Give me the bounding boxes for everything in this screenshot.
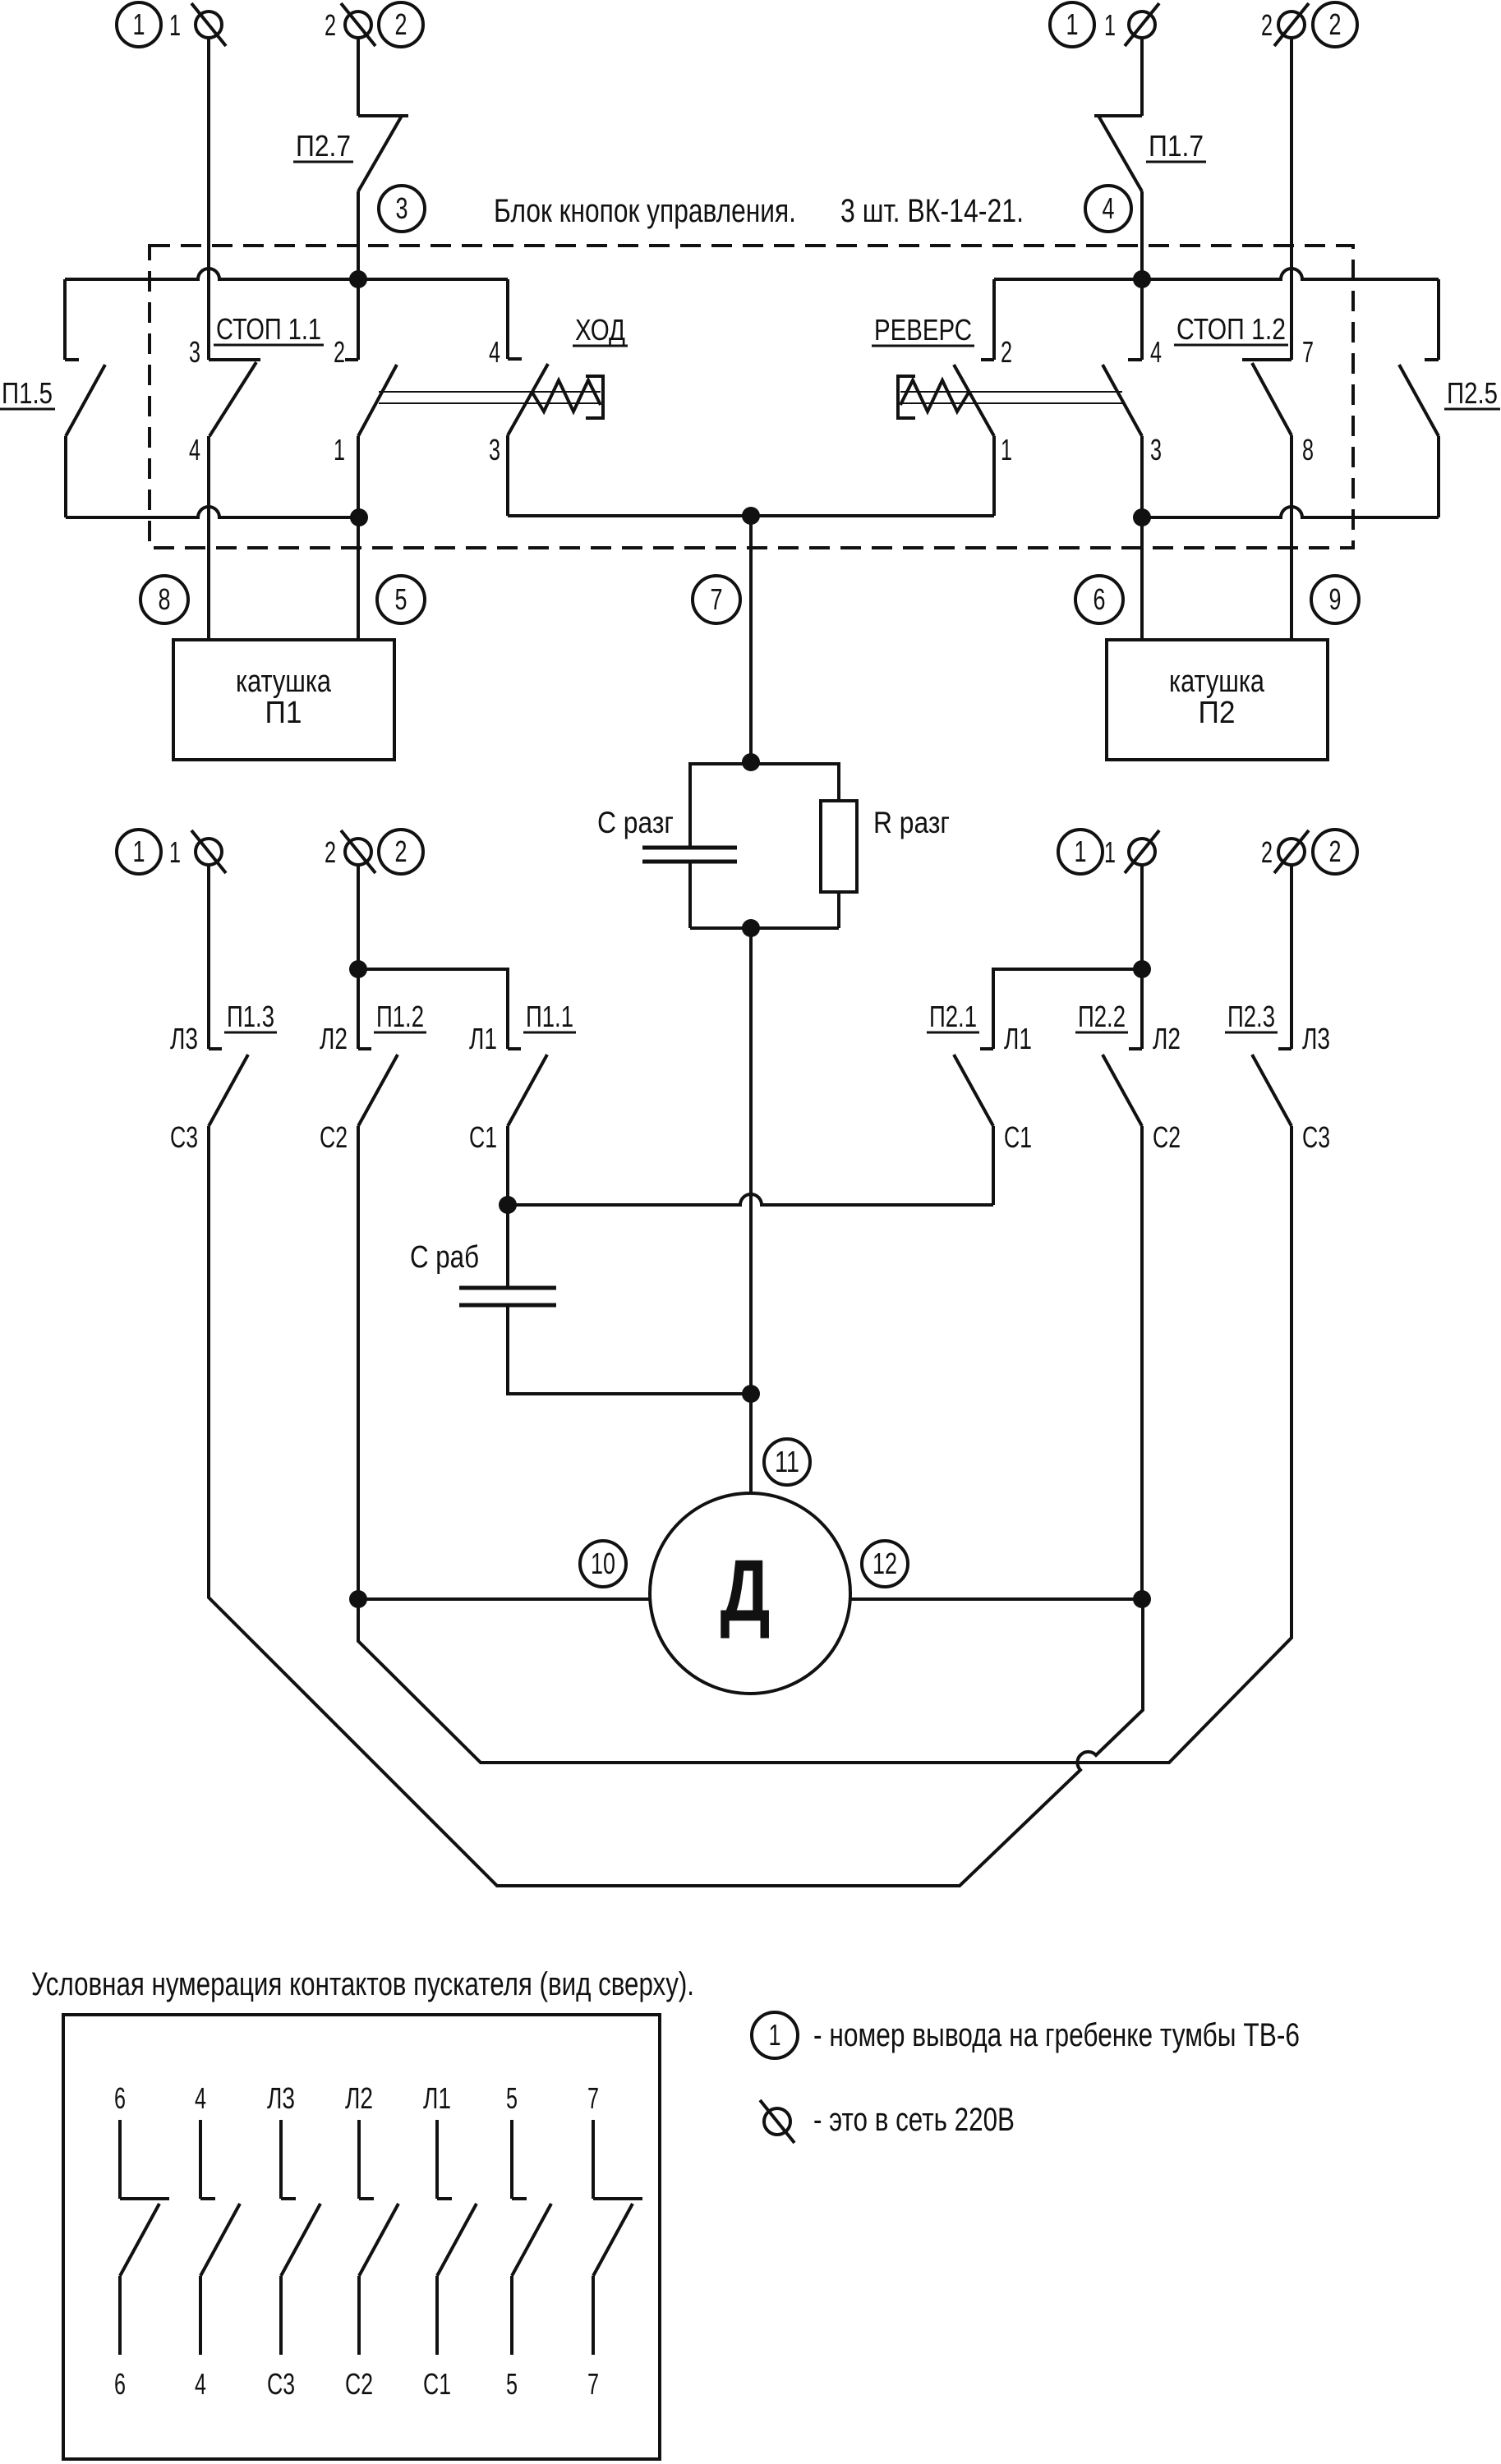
junction dot RC top <box>742 753 760 771</box>
wire СТОП1.1 pin4 down to катушка П1 left <box>207 436 210 640</box>
terminal circle 1 (top-left) <box>117 2 161 47</box>
svg-text:П1: П1 <box>265 696 302 730</box>
svg-text:2: 2 <box>1001 335 1012 369</box>
network 220V symbol (top-left wire 1) <box>196 11 222 38</box>
svg-text:4: 4 <box>1103 191 1115 225</box>
svg-text:П2.1: П2.1 <box>929 1000 977 1033</box>
svg-text:С1: С1 <box>1004 1120 1032 1154</box>
svg-text:3 шт. ВК-14-21.: 3 шт. ВК-14-21. <box>840 193 1024 229</box>
wire СТОП1.2 left pole from bus <box>1140 279 1144 360</box>
svg-text:5: 5 <box>395 582 407 616</box>
pusher contact column 1 symbol <box>118 2120 122 2199</box>
svg-text:2: 2 <box>1261 835 1273 869</box>
svg-text:С раб: С раб <box>410 1240 479 1275</box>
contact П1.7 (NC) <box>1094 114 1142 117</box>
wire П1.5 bottom to lower-left bus <box>64 436 67 517</box>
svg-text:1: 1 <box>1001 433 1012 467</box>
svg-text:8: 8 <box>159 582 171 616</box>
svg-text:Л1: Л1 <box>469 1022 497 1055</box>
legend circle 1 symbol <box>752 2012 798 2058</box>
junction dot motor-right <box>1133 1590 1151 1608</box>
wire П1.3 to motor-right node (outer loop) <box>209 1126 1143 1886</box>
terminal circle 1 (mid-right) <box>1058 830 1103 874</box>
svg-text:2: 2 <box>1329 7 1342 41</box>
network 220V symbol (top-right wire 1) <box>1129 11 1155 38</box>
terminal circle 2 (top-right) <box>1313 2 1357 47</box>
wire П2.5 bottom to lower-right bus <box>1437 436 1440 517</box>
contact П2.1 <box>980 1047 993 1050</box>
wire motor stem <box>749 1394 753 1493</box>
wire motor terminal 10 <box>358 1597 650 1601</box>
wire ХОД pin3 down to center bus <box>506 435 509 516</box>
junction dot top bus / П1.7 <box>1133 270 1151 288</box>
contact П2.3 <box>1278 1047 1292 1050</box>
svg-text:Л1: Л1 <box>1004 1022 1032 1055</box>
pusher contact column 4 symbol <box>357 2120 361 2199</box>
contact СТОП 1.1 left pole (NC) pin3-pin4 <box>209 358 260 361</box>
svg-text:С2: С2 <box>1153 1120 1181 1154</box>
svg-text:С разг: С разг <box>597 806 674 839</box>
network 220V symbol (top-left wire 2) <box>345 11 371 38</box>
contact СТОП 1.2 right pole (NC) pin7-pin8 <box>1242 358 1292 361</box>
terminal circle 10 <box>580 1541 626 1587</box>
svg-text:Л3: Л3 <box>170 1022 198 1055</box>
svg-text:7: 7 <box>1302 335 1314 369</box>
svg-text:С1: С1 <box>469 1120 497 1154</box>
wire motor terminal 12 <box>850 1597 1142 1601</box>
contact П1.1 <box>508 1047 521 1050</box>
svg-text:П2.3: П2.3 <box>1227 1000 1275 1033</box>
svg-text:ХОД: ХОД <box>575 313 625 347</box>
svg-text:2: 2 <box>1329 834 1342 868</box>
svg-text:катушка: катушка <box>236 664 332 699</box>
junction dot RC bottom <box>742 919 760 937</box>
junction dot top bus / П2.7 <box>349 270 367 288</box>
svg-text:7: 7 <box>587 2081 599 2115</box>
wire network to П1.3 <box>207 865 210 1049</box>
wire СТОП1.1 right pole from bus <box>357 279 360 360</box>
wire mid-right junction to П2.1 <box>993 969 1142 1049</box>
svg-text:П1.7: П1.7 <box>1149 129 1204 163</box>
svg-text:6: 6 <box>114 2367 126 2401</box>
resistor R разг <box>821 801 857 892</box>
svg-text:1: 1 <box>769 2018 781 2052</box>
terminal circle 1 (top-right) <box>1050 2 1094 47</box>
wire РЕВЕРС pin1 down to center bus <box>992 436 996 516</box>
link П1.1-П2.1 with hop over center wire <box>508 1194 993 1205</box>
wire П2.2 down to motor-right node <box>1140 1126 1144 1599</box>
svg-text:2: 2 <box>325 835 336 869</box>
lower-right bus with hop over wire to катушка П2 <box>1142 507 1439 517</box>
junction dot mid-left <box>349 960 367 978</box>
wire R-разг branch bottom <box>837 892 840 928</box>
contact ХОД (NO pushbutton) pin4-pin3 <box>508 357 522 361</box>
svg-text:1: 1 <box>1104 8 1116 42</box>
svg-text:2: 2 <box>334 335 345 369</box>
svg-text:С1: С1 <box>423 2367 451 2401</box>
capacitor С раб <box>459 1286 556 1290</box>
terminal circle 7 <box>693 576 740 623</box>
svg-text:Л3: Л3 <box>1302 1022 1330 1055</box>
contact РЕВЕРС (NO pushbutton) pin2-pin1 <box>981 358 994 361</box>
svg-text:7: 7 <box>587 2367 599 2401</box>
wire П1.1 down to С раб node <box>506 1126 509 1205</box>
wire RC bottom joining <box>690 926 839 930</box>
network 220V symbol (mid-right wire 2) <box>1278 839 1305 865</box>
svg-text:П2.2: П2.2 <box>1078 1000 1126 1033</box>
svg-text:Условная нумерация контактов п: Условная нумерация контактов пускателя (… <box>31 1966 694 2002</box>
wire RC down to motor node <box>749 928 753 1394</box>
svg-text:1: 1 <box>169 835 181 869</box>
contact П2.5 (NO) <box>1437 279 1440 360</box>
contact numbering box <box>63 2015 660 2459</box>
contact П1.2 <box>358 1047 371 1050</box>
svg-text:П1.1: П1.1 <box>526 1000 573 1033</box>
svg-text:3: 3 <box>1150 433 1162 467</box>
svg-text:9: 9 <box>1329 582 1342 616</box>
svg-text:П2.5: П2.5 <box>1447 376 1498 410</box>
svg-text:РЕВЕРС: РЕВЕРС <box>874 313 972 347</box>
dashed box Блок кнопок управления <box>150 246 1353 548</box>
junction dot С раб node <box>499 1196 517 1214</box>
svg-text:1: 1 <box>334 433 345 467</box>
terminal circle 9 <box>1311 576 1359 623</box>
svg-text:1: 1 <box>133 7 145 41</box>
contact П2.7 (NC) <box>358 114 408 117</box>
svg-text:П2.7: П2.7 <box>296 129 351 163</box>
contact П1.5 (NO) <box>63 279 67 360</box>
capacitor С разг <box>642 846 737 850</box>
contact П1.3 <box>209 1047 222 1050</box>
svg-text:С2: С2 <box>345 2367 373 2401</box>
svg-text:4: 4 <box>1150 335 1162 369</box>
junction dot motor-left <box>349 1590 367 1608</box>
pusher contact column 7 symbol <box>592 2120 595 2199</box>
wire from network-1 down to П1.7 <box>1140 38 1144 116</box>
svg-text:4: 4 <box>489 335 500 369</box>
wire from network-2 down to СТОП 1.2 pin 7 <box>1290 38 1293 360</box>
network 220V symbol (mid-right wire 1) <box>1129 839 1155 865</box>
svg-text:1: 1 <box>169 8 181 42</box>
network 220V symbol (mid-left wire 2) <box>345 839 371 865</box>
wire П2.3 to motor-left node (inner loop) <box>358 1126 1292 1763</box>
terminal circle 4 <box>1085 186 1131 232</box>
wire П1.2 down to motor-left node <box>357 1126 360 1599</box>
svg-text:1: 1 <box>133 834 145 868</box>
wire from network-1 down to СТОП 1.1 pin 3 <box>207 38 210 360</box>
svg-text:8: 8 <box>1302 433 1314 467</box>
terminal circle 5 <box>377 576 425 623</box>
wire П2.1 down to link <box>992 1126 995 1205</box>
svg-text:R разг: R разг <box>873 806 950 839</box>
wire C-разг branch top <box>690 764 751 847</box>
svg-text:П1.2: П1.2 <box>376 1000 424 1033</box>
junction dot lower-left bus <box>350 508 368 526</box>
wire network to П2.3 <box>1290 865 1293 1049</box>
wire R-разг branch top <box>751 764 839 801</box>
svg-text:5: 5 <box>506 2081 518 2115</box>
wire СТОП1.2 pin3 down to катушка П2 left <box>1140 436 1144 640</box>
svg-text:2: 2 <box>1261 8 1273 42</box>
svg-text:4: 4 <box>195 2367 206 2401</box>
svg-text:П2: П2 <box>1199 696 1236 730</box>
center bus ХОД-РЕВЕРС <box>508 514 994 517</box>
svg-text:катушка: катушка <box>1169 664 1265 699</box>
svg-text:3: 3 <box>396 191 408 225</box>
network 220V symbol (mid-left wire 1) <box>196 839 222 865</box>
terminal circle 2 (mid-right) <box>1313 830 1357 874</box>
junction dot mid-right <box>1133 960 1151 978</box>
svg-text:- это в сеть 220В: - это в сеть 220В <box>813 2102 1015 2138</box>
pusher contact column 3 symbol <box>279 2120 283 2199</box>
terminal circle 2 (mid-left) <box>379 830 423 874</box>
terminal circle 2 (top-left) <box>379 2 423 47</box>
motor Д <box>650 1493 850 1694</box>
svg-text:Л3: Л3 <box>267 2081 295 2115</box>
svg-text:4: 4 <box>195 2081 206 2115</box>
wire C-разг branch bottom <box>688 862 692 928</box>
svg-text:Л2: Л2 <box>1153 1022 1181 1055</box>
svg-text:П1.3: П1.3 <box>227 1000 274 1033</box>
junction dot motor node 11 <box>742 1385 760 1403</box>
lower-left bus with hop over wire to катушка П1 <box>66 507 359 517</box>
svg-text:- номер вывода на гребенке тум: - номер вывода на гребенке тумбы ТВ-6 <box>813 2017 1300 2053</box>
pusher contact column 5 symbol <box>435 2120 439 2199</box>
junction dot lower-right bus <box>1133 508 1151 526</box>
svg-text:3: 3 <box>189 335 200 369</box>
svg-text:Блок кнопок управления.: Блок кнопок управления. <box>494 193 796 229</box>
wire node to С раб capacitor <box>506 1205 509 1286</box>
wire bus corner down to РЕВЕРС pin 2 <box>992 279 996 360</box>
junction dot center bus / node 7 <box>742 507 760 525</box>
wire С раб bottom to motor node <box>508 1306 751 1394</box>
svg-text:3: 3 <box>489 433 500 467</box>
legend network symbol <box>764 2108 790 2135</box>
spring of РЕВЕРС button <box>900 380 969 411</box>
terminal circle 11 <box>764 1439 810 1485</box>
mechanical link bar (right buttons) <box>900 391 1122 393</box>
svg-text:Л2: Л2 <box>345 2081 373 2115</box>
svg-text:2: 2 <box>325 8 336 42</box>
spring of ХОД button <box>532 380 601 411</box>
svg-text:Д: Д <box>721 1541 771 1639</box>
svg-text:6: 6 <box>114 2081 126 2115</box>
svg-text:1: 1 <box>1066 7 1079 41</box>
svg-text:С3: С3 <box>267 2367 295 2401</box>
terminal circle 8 <box>140 576 188 623</box>
svg-text:10: 10 <box>591 1547 615 1580</box>
wire from network-2 down to П2.7 <box>357 38 360 116</box>
wire П2.7 to top bus <box>357 191 360 279</box>
wire П1.7 to top bus <box>1140 191 1144 279</box>
svg-text:СТОП 1.2: СТОП 1.2 <box>1176 312 1286 346</box>
svg-text:12: 12 <box>873 1547 897 1580</box>
terminal circle 6 <box>1075 576 1123 623</box>
svg-text:6: 6 <box>1094 582 1106 616</box>
svg-text:П1.5: П1.5 <box>2 376 53 410</box>
terminal circle 12 <box>862 1541 908 1587</box>
wire network to mid-right junction <box>1140 865 1144 969</box>
svg-text:2: 2 <box>395 834 407 868</box>
coil катушка П1 box <box>173 640 394 760</box>
terminal circle 3 <box>379 186 425 232</box>
wire bus corner down to ХОД pin 4 <box>506 279 509 359</box>
svg-text:С3: С3 <box>170 1120 198 1154</box>
wire СТОП1.2 pin8 down to катушка П2 right <box>1290 435 1293 640</box>
contact СТОП 1.2 left pole (NO) pin4-pin3 <box>1128 358 1142 361</box>
top-right bus with hop over wire 2 <box>994 269 1439 279</box>
terminal circle 1 (mid-left) <box>117 830 161 874</box>
svg-text:Л1: Л1 <box>423 2081 451 2115</box>
top-left bus with hop over wire 1 <box>65 269 508 279</box>
svg-text:Л2: Л2 <box>320 1022 348 1055</box>
wire СТОП1.1 pin1 down to катушка П1 right <box>357 436 360 640</box>
wire mid-left junction to П1.2 <box>357 969 360 1049</box>
network 220V symbol (top-right wire 2) <box>1278 11 1305 38</box>
contact П2.2 <box>1129 1047 1142 1050</box>
svg-text:5: 5 <box>506 2367 518 2401</box>
wire node7 down to RC <box>749 516 753 762</box>
mechanical link bar (left buttons) <box>379 391 601 393</box>
svg-text:С2: С2 <box>320 1120 348 1154</box>
svg-text:4: 4 <box>189 433 200 467</box>
svg-text:2: 2 <box>395 7 407 41</box>
wire mid-right junction to П2.2 <box>1140 969 1144 1049</box>
svg-text:1: 1 <box>1104 835 1116 869</box>
wire mid-left junction to П1.1 <box>358 969 508 1049</box>
contact СТОП 1.1 right pole (NO) pin2-pin1 <box>345 358 358 361</box>
pusher contact column 2 symbol <box>199 2120 202 2199</box>
pusher contact column 6 symbol <box>510 2120 513 2199</box>
svg-text:СТОП 1.1: СТОП 1.1 <box>216 312 321 346</box>
svg-text:7: 7 <box>711 582 723 616</box>
svg-text:11: 11 <box>775 1445 799 1478</box>
coil катушка П2 box <box>1107 640 1328 760</box>
svg-text:С3: С3 <box>1302 1120 1330 1154</box>
wire network to mid-left junction <box>357 865 360 969</box>
svg-text:1: 1 <box>1075 834 1087 868</box>
